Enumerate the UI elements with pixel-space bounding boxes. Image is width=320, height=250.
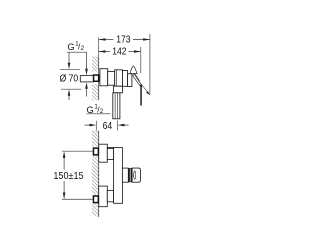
lever handle (top view) xyxy=(130,66,150,105)
shower outlet pipe (top view) xyxy=(113,93,120,119)
svg-text:173: 173 xyxy=(116,35,131,46)
union nut fitting (top view) xyxy=(94,75,99,81)
top connector leg (side view) xyxy=(107,148,113,159)
svg-text:G: G xyxy=(67,42,74,52)
svg-text:Ø 70: Ø 70 xyxy=(60,73,79,84)
body main section (top view) xyxy=(115,70,123,86)
dark ring (side view) xyxy=(128,168,132,182)
dimension 64 xyxy=(85,121,129,133)
svg-text:2: 2 xyxy=(81,45,85,52)
union nut (side view, bottom) xyxy=(93,196,98,203)
wall (side view) hatched strip xyxy=(92,131,99,218)
body neck (top view) xyxy=(108,71,115,85)
dimension Ø70 xyxy=(60,53,82,100)
bottom connector leg (side view) xyxy=(107,190,113,201)
svg-text:142: 142 xyxy=(112,47,127,58)
end cap (top view) xyxy=(128,74,132,87)
top edge of body extending to plate xyxy=(107,147,113,149)
label G 1/2 (middle) xyxy=(87,104,111,116)
label G 1/2 (top) xyxy=(67,40,88,96)
dimension 150±15 xyxy=(53,151,92,199)
union nut (side view, top) xyxy=(93,148,98,155)
svg-text:64: 64 xyxy=(103,121,113,132)
wall face extension line up to dims xyxy=(98,38,100,57)
top escutcheon plate (side view) xyxy=(99,144,108,162)
cartridge ring (top view) xyxy=(123,71,128,87)
lever knob end-on (side view) xyxy=(132,168,140,182)
supply pipe in wall (top view) xyxy=(80,75,94,82)
body slab (side view) xyxy=(114,148,123,204)
svg-text:150±15: 150±15 xyxy=(53,171,84,182)
bottom escutcheon plate (side view) xyxy=(99,186,108,207)
escutcheon flange (top view) xyxy=(100,69,108,86)
wall (top view) hatched strip xyxy=(92,57,99,101)
shower outlet stub (top view) xyxy=(114,86,123,93)
dimension 142 xyxy=(99,47,141,74)
dimension 173 xyxy=(99,34,150,95)
cartridge housing (side view) xyxy=(122,168,128,182)
